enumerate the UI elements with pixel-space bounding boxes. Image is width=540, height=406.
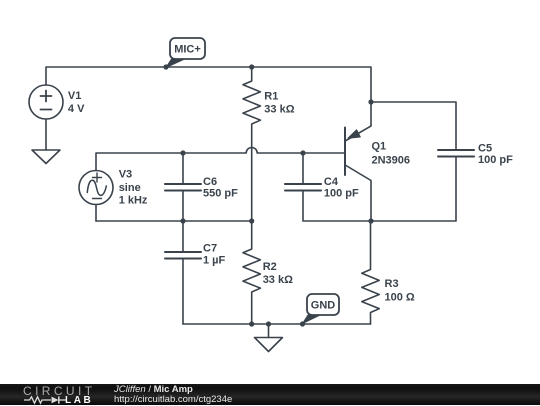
footer url line	[114, 395, 232, 405]
wire V3 to bottom rail	[95, 205, 97, 222]
node R2 bottom	[249, 321, 254, 326]
label R2 value	[263, 261, 293, 286]
wire bottom-left rail	[96, 220, 252, 222]
wire C5 top	[371, 102, 456, 150]
wire ground rail	[183, 323, 371, 325]
svg-text:2N3906: 2N3906	[372, 154, 411, 166]
label V1 value	[68, 90, 85, 115]
label R1 value	[264, 90, 294, 115]
svg-text:R3: R3	[385, 278, 399, 290]
node C6 top	[180, 150, 185, 155]
resistor R1	[243, 67, 260, 221]
wire V1 to ground	[45, 119, 47, 150]
svg-text:C5: C5	[478, 142, 492, 154]
svg-text:GND: GND	[311, 300, 336, 312]
transistor Q1	[345, 102, 371, 221]
node ground attach	[266, 321, 271, 326]
capacitor C5	[438, 150, 474, 157]
svg-text:100 Ω: 100 Ω	[385, 291, 415, 303]
CircuitLab logo wordmark	[23, 384, 95, 398]
svg-text:100 pF: 100 pF	[324, 188, 359, 200]
CircuitLab logo resistor-diode glyph	[0, 383, 110, 405]
capacitor C4	[285, 153, 321, 191]
svg-text:R2: R2	[263, 261, 277, 273]
node R1 top	[249, 64, 254, 69]
svg-text:550 pF: 550 pF	[203, 188, 238, 200]
footer bar	[0, 384, 540, 406]
svg-text:100 pF: 100 pF	[478, 154, 513, 166]
node MIC+ attach	[163, 64, 168, 69]
svg-text:33 kΩ: 33 kΩ	[264, 103, 294, 115]
wire C4 bottom to collector node	[303, 191, 371, 222]
node collector junction	[368, 218, 373, 223]
ground symbol main	[255, 324, 283, 352]
svg-text:V3: V3	[119, 168, 132, 180]
svg-text:1 µF: 1 µF	[203, 255, 226, 267]
svg-text:V1: V1	[68, 90, 81, 102]
capacitor C7	[165, 221, 201, 324]
voltage source V1	[29, 85, 63, 119]
footer title line	[114, 385, 193, 395]
svg-text:MIC+: MIC+	[174, 44, 201, 56]
wire top rail	[46, 67, 371, 102]
label C6 value	[203, 176, 238, 200]
svg-text:Q1: Q1	[372, 141, 387, 153]
node emitter C5	[368, 99, 373, 104]
svg-text:R1: R1	[264, 90, 278, 102]
label R3 value	[385, 278, 415, 303]
node R2 top	[249, 218, 254, 223]
node GND flag attach	[300, 321, 305, 326]
svg-text:C6: C6	[203, 176, 217, 188]
voltage source V3	[79, 171, 113, 205]
svg-text:1 kHz: 1 kHz	[119, 195, 148, 207]
node C6 bottom	[180, 218, 185, 223]
resistor R3	[362, 221, 379, 324]
label C4 value	[324, 176, 359, 200]
net flag GND	[303, 294, 340, 324]
svg-text:C7: C7	[203, 243, 217, 255]
svg-text:sine: sine	[119, 182, 141, 194]
label C5 value	[478, 142, 513, 166]
label Q1 value	[372, 141, 411, 167]
label C7 value	[203, 243, 226, 267]
label V3 value	[119, 168, 148, 206]
node C4 base	[300, 150, 305, 155]
svg-text:C4: C4	[324, 176, 339, 188]
capacitor C6	[165, 153, 201, 221]
net flag MIC+	[166, 38, 205, 68]
CircuitLab logo LAB text	[65, 395, 93, 406]
resistor R2	[243, 221, 260, 324]
ground symbol at V1	[32, 150, 60, 164]
svg-text:33 kΩ: 33 kΩ	[263, 274, 293, 286]
svg-text:4 V: 4 V	[68, 103, 85, 115]
wire base rail with hop over R1	[96, 148, 345, 171]
wire C5 bottom	[371, 157, 456, 222]
